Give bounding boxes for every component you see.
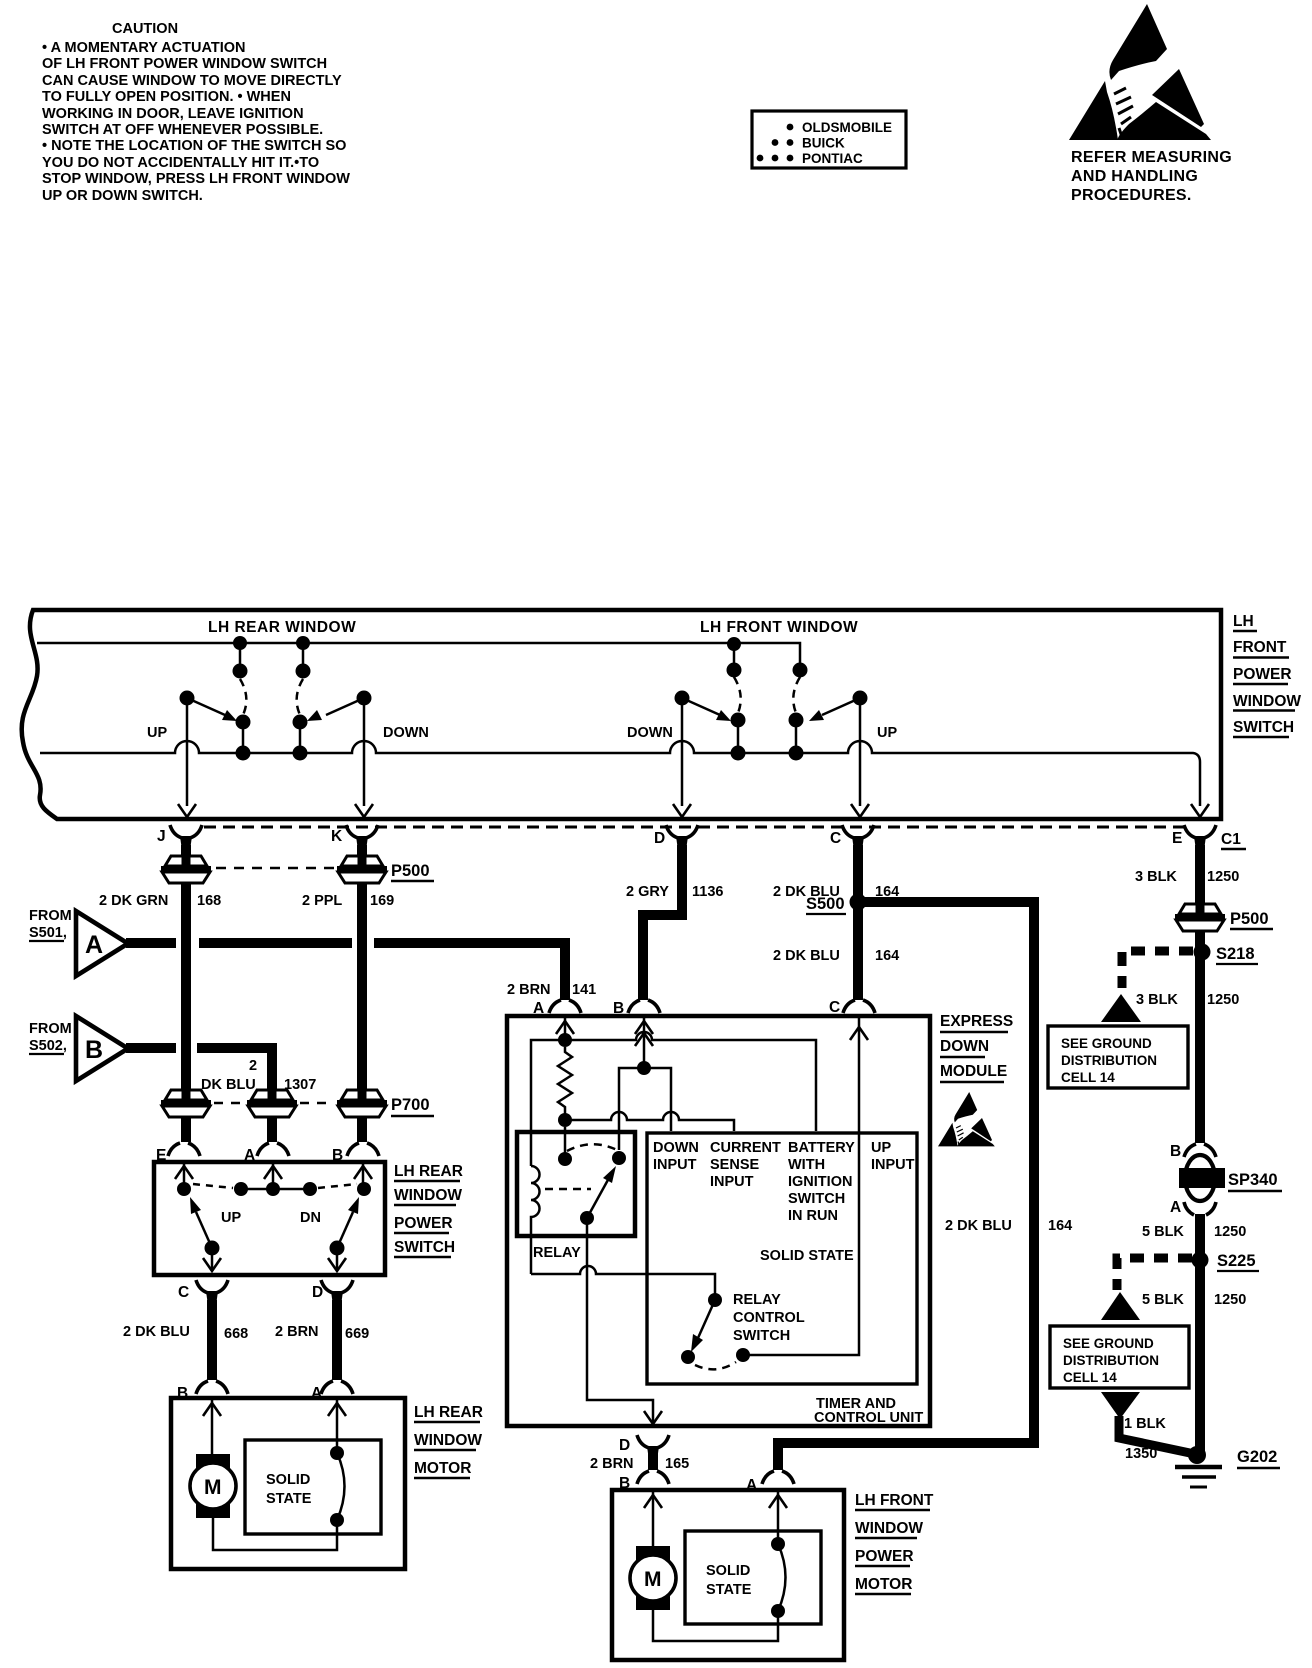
svg-text:SOLID STATE: SOLID STATE (760, 1248, 854, 1264)
module pin B connector (613, 1000, 660, 1017)
splice SP340 (1179, 1155, 1282, 1201)
splice SP340 pin A (1170, 1199, 1216, 1216)
wire circuit 168 (J to P700-E) (181, 884, 191, 1090)
LH rear switch dashed contact throws (240, 679, 246, 715)
svg-text:SWITCH: SWITCH (1233, 719, 1294, 736)
svg-text:C1: C1 (1221, 831, 1241, 848)
rear switch pin B connector (332, 1143, 379, 1164)
rear switch dashed throws (193, 1184, 233, 1188)
caution note text block (42, 21, 350, 204)
label RELAY CONTROL SWITCH (733, 1292, 805, 1344)
make legend box (Oldsmobile/Buick/Pontiac) (752, 111, 906, 168)
svg-text:LH FRONT WINDOW: LH FRONT WINDOW (700, 619, 858, 636)
rear motor pin B connector (177, 1381, 228, 1402)
relay arm output to module pin D (587, 1218, 653, 1423)
pin E connector (1172, 825, 1216, 847)
rear motor title (414, 1404, 483, 1478)
feed line (top bus inside switch) (37, 643, 800, 668)
label P500 (391, 862, 434, 881)
svg-text:STOP WINDOW, PRESS LH FRONT WI: STOP WINDOW, PRESS LH FRONT WINDOW (42, 171, 350, 187)
svg-text:UP OR DOWN SWITCH.: UP OR DOWN SWITCH. (42, 188, 203, 204)
svg-text:CONTROL: CONTROL (733, 1310, 805, 1326)
svg-text:OF LH FRONT POWER WINDOW SWITC: OF LH FRONT POWER WINDOW SWITCH (42, 56, 327, 72)
connector P500 (K leg) (337, 855, 387, 883)
wires P700 to rear switch pins (186, 1117, 362, 1142)
rear switch contact bus (177, 1182, 371, 1196)
svg-text:169: 169 (370, 893, 394, 909)
svg-text:MODULE: MODULE (940, 1063, 1007, 1080)
svg-text:SEE GROUND: SEE GROUND (1063, 1336, 1154, 1351)
relay dashed throw arc (567, 1144, 617, 1151)
rear switch D output arrow (328, 1248, 346, 1271)
front motor pin A connector (746, 1471, 794, 1494)
svg-text:IN RUN: IN RUN (788, 1208, 838, 1224)
svg-text:D: D (619, 1437, 630, 1454)
wire circuit 164 (C to module C) (853, 845, 863, 1000)
dashed wire S218 to ground distribution (1122, 951, 1193, 988)
svg-text:CAUTION: CAUTION (112, 21, 178, 37)
svg-text:IGNITION: IGNITION (788, 1174, 852, 1190)
rear switch E input arrow (175, 1164, 193, 1189)
P500 dashed tie line (216, 867, 334, 870)
wire circuit 668 (207, 1300, 217, 1380)
wire circuit 165 (648, 1450, 658, 1470)
svg-text:A: A (1170, 1199, 1181, 1216)
connector P700 (B leg) (337, 1089, 387, 1117)
svg-text:S501,: S501, (29, 925, 67, 941)
svg-text:TO FULLY OPEN POSITION. • WHEN: TO FULLY OPEN POSITION. • WHEN (42, 89, 291, 105)
wire circuit 169 (K to P700-B) (357, 884, 367, 1090)
svg-text:INPUT: INPUT (871, 1157, 915, 1173)
svg-text:2 DK BLU: 2 DK BLU (945, 1218, 1012, 1234)
svg-text:SOLID: SOLID (266, 1472, 310, 1488)
svg-text:668: 668 (224, 1326, 248, 1342)
LH rear window motor box (171, 1398, 405, 1569)
current sense input line (hops over two columns) (565, 1112, 734, 1131)
svg-text:MOTOR: MOTOR (414, 1460, 471, 1477)
svg-text:UP: UP (877, 725, 897, 741)
svg-text:LH FRONT: LH FRONT (855, 1492, 934, 1509)
svg-text:DISTRIBUTION: DISTRIBUTION (1061, 1053, 1157, 1068)
rear motor B input arrow (203, 1400, 221, 1454)
svg-text:YOU DO NOT ACCIDENTALLY HIT IT: YOU DO NOT ACCIDENTALLY HIT IT.•TO (42, 155, 319, 171)
label BATTERY WITH IGNITION SWITCH IN RUN (788, 1140, 855, 1224)
svg-text:2 PPL: 2 PPL (302, 893, 342, 909)
rear switch DN moving contact arm (330, 1197, 360, 1256)
wire circuit 669 (332, 1300, 342, 1380)
P700 dashed tie lines (214, 1102, 245, 1105)
svg-text:SEE GROUND: SEE GROUND (1061, 1036, 1152, 1051)
current sense resistor (558, 1047, 572, 1114)
svg-text:BATTERY: BATTERY (788, 1140, 855, 1156)
battery-with-ignition feed line (hop over B column) (565, 1032, 816, 1131)
rear motor internal switch (330, 1446, 345, 1534)
svg-text:P500: P500 (391, 862, 430, 880)
svg-text:SWITCH: SWITCH (733, 1328, 790, 1344)
relay fixed contact (B side) (612, 1151, 626, 1165)
module B input arrows (double) (635, 1018, 653, 1068)
label UP INPUT (871, 1140, 915, 1173)
wire SP340 to S225 (circuit 1250) (1195, 1214, 1205, 1455)
svg-text:168: 168 (197, 893, 221, 909)
svg-text:S225: S225 (1217, 1252, 1256, 1270)
relay box (517, 1132, 635, 1236)
rear switch A input arrow (264, 1164, 282, 1189)
svg-text:POWER: POWER (855, 1548, 914, 1565)
svg-text:FRONT: FRONT (1233, 639, 1287, 656)
off-page arrow to ground distribution (lower) (1101, 1292, 1140, 1320)
svg-text:B: B (1170, 1143, 1181, 1160)
label CURRENT SENSE INPUT (710, 1140, 781, 1190)
svg-text:• A MOMENTARY ACTUATION: • A MOMENTARY ACTUATION (42, 40, 246, 56)
svg-text:DOWN: DOWN (383, 725, 429, 741)
svg-text:M: M (204, 1476, 222, 1499)
ground G202 (1175, 1446, 1280, 1487)
LH front window power motor box (612, 1490, 844, 1660)
svg-text:CAN CAUSE WINDOW TO MOVE DIREC: CAN CAUSE WINDOW TO MOVE DIRECTLY (42, 73, 342, 89)
svg-text:B: B (613, 1000, 624, 1017)
svg-text:STATE: STATE (266, 1491, 312, 1507)
relay control switch (681, 1293, 750, 1369)
LH front switch DOWN moving contact (675, 691, 746, 761)
off-page arrow from ground distribution (1101, 1392, 1140, 1419)
svg-text:DOWN: DOWN (940, 1038, 989, 1055)
svg-text:SENSE: SENSE (710, 1157, 759, 1173)
ESD handling note text (1071, 149, 1232, 204)
svg-text:FROM: FROM (29, 1021, 72, 1037)
front motor A input arrow (769, 1492, 787, 1544)
svg-text:CELL 14: CELL 14 (1061, 1070, 1115, 1085)
svg-text:WINDOW: WINDOW (414, 1432, 482, 1449)
svg-text:S500: S500 (806, 895, 845, 913)
svg-text:MOTOR: MOTOR (855, 1576, 912, 1593)
output rail wire with crossover hops (40, 741, 1200, 806)
svg-text:B: B (85, 1036, 103, 1064)
svg-text:C: C (829, 999, 840, 1016)
relay coil feed branch (531, 1040, 565, 1166)
switch output drop wires to connector pins (187, 705, 860, 806)
motor M2 (front) (630, 1546, 676, 1610)
label C1 (1221, 831, 1246, 849)
LH rear window switch fixed contacts (233, 636, 311, 679)
svg-text:164: 164 (1048, 1218, 1072, 1234)
module pin D connector (619, 1435, 669, 1457)
svg-text:UP: UP (221, 1210, 241, 1226)
wire circuit 1250 (E to P500) (1195, 845, 1205, 905)
svg-text:2 BRN: 2 BRN (275, 1324, 319, 1340)
svg-text:EXPRESS: EXPRESS (940, 1013, 1013, 1030)
svg-text:DN: DN (300, 1210, 321, 1226)
svg-text:D: D (654, 830, 665, 847)
svg-text:WITH: WITH (788, 1157, 825, 1173)
front motor solid state box (685, 1531, 821, 1624)
front motor internal switch (771, 1537, 786, 1624)
LH front window switch fixed contacts (727, 637, 808, 678)
svg-text:CELL 14: CELL 14 (1063, 1370, 1117, 1385)
connector C1 dashed boundary line (204, 826, 1190, 829)
svg-text:DOWN: DOWN (653, 1140, 699, 1156)
svg-text:1136: 1136 (692, 884, 723, 900)
svg-text:BUICK: BUICK (802, 136, 845, 151)
express down module box (507, 1016, 930, 1426)
relay fixed contact (A side) (558, 1127, 572, 1166)
svg-text:DK BLU: DK BLU (201, 1077, 256, 1093)
svg-text:141: 141 (572, 982, 596, 998)
relay moving contact arm (580, 1166, 616, 1225)
connector P500 (E leg) (1175, 903, 1225, 931)
svg-text:2: 2 (249, 1058, 257, 1074)
svg-text:C: C (178, 1284, 189, 1301)
rear motor pin A connector (311, 1381, 353, 1402)
pin D connector (654, 825, 698, 847)
node B from S502 label (29, 1021, 72, 1054)
svg-text:2 DK BLU: 2 DK BLU (773, 948, 840, 964)
LH rear window power switch box (154, 1162, 385, 1275)
svg-text:LH REAR: LH REAR (394, 1163, 463, 1180)
splice SP340 pin B (1170, 1143, 1216, 1160)
svg-text:5 BLK: 5 BLK (1142, 1224, 1184, 1240)
node A junction (558, 1033, 572, 1047)
svg-text:INPUT: INPUT (710, 1174, 754, 1190)
wire from A to express down module (battery feed) (126, 938, 560, 948)
see ground distribution cell 14 note (lower) (1050, 1326, 1189, 1388)
rear motor solid state box (245, 1440, 381, 1534)
svg-text:5 BLK: 5 BLK (1142, 1292, 1184, 1308)
svg-text:DOWN: DOWN (627, 725, 673, 741)
LH front switch UP moving contact (789, 691, 868, 761)
rear switch UP moving contact arm (190, 1197, 220, 1256)
svg-text:S218: S218 (1216, 945, 1255, 963)
svg-text:PONTIAC: PONTIAC (802, 151, 863, 166)
exit arrows at switch box bottom (178, 804, 1209, 817)
svg-text:REFER MEASURING: REFER MEASURING (1071, 149, 1232, 166)
module pin C connector (829, 999, 875, 1016)
svg-text:K: K (331, 828, 343, 845)
svg-text:WINDOW: WINDOW (1233, 693, 1301, 710)
svg-text:J: J (157, 828, 166, 845)
svg-text:CURRENT: CURRENT (710, 1140, 781, 1156)
LH rear switch DN moving contact (293, 691, 372, 761)
wire circuit 1350 to G202 (1119, 1416, 1190, 1453)
svg-text:WORKING IN DOOR, LEAVE IGNITIO: WORKING IN DOOR, LEAVE IGNITION (42, 106, 304, 122)
splice S500 (806, 894, 867, 915)
pin J connector (157, 825, 202, 847)
timer and control unit box (647, 1133, 917, 1384)
svg-text:A: A (85, 931, 103, 959)
svg-text:669: 669 (345, 1326, 369, 1342)
svg-text:3 BLK: 3 BLK (1135, 869, 1177, 885)
svg-text:1 BLK: 1 BLK (1124, 1416, 1166, 1432)
front motor return wire (653, 1610, 778, 1641)
svg-text:S502,: S502, (29, 1038, 67, 1054)
wire K stub (357, 845, 367, 856)
LH rear switch UP moving contact (180, 691, 251, 761)
svg-text:FROM: FROM (29, 908, 72, 924)
svg-text:STATE: STATE (706, 1582, 752, 1598)
rear switch B input arrow (354, 1164, 372, 1189)
node A from S501 label (29, 908, 72, 941)
svg-text:• NOTE THE LOCATION OF THE SWI: • NOTE THE LOCATION OF THE SWITCH SO (42, 138, 346, 154)
rear motor return wire (213, 1518, 337, 1550)
svg-text:1250: 1250 (1207, 869, 1239, 885)
node B junction (637, 1061, 651, 1075)
svg-text:1250: 1250 (1214, 1292, 1246, 1308)
module title EXPRESS DOWN MODULE (940, 1013, 1013, 1082)
off-page triangle B (76, 1016, 128, 1081)
svg-text:G202: G202 (1237, 1448, 1277, 1466)
rear switch pin C connector (178, 1280, 228, 1302)
splice S225 (1192, 1252, 1260, 1272)
front motor pin B connector (619, 1471, 669, 1492)
svg-text:SOLID: SOLID (706, 1563, 750, 1579)
wire from S500 to LH front motor A (circuit 164) (783, 902, 1034, 1443)
svg-text:164: 164 (875, 948, 899, 964)
svg-text:D: D (312, 1284, 323, 1301)
pin C connector (830, 825, 874, 847)
relay coil return line (hop over arm wire) (531, 1266, 715, 1294)
rear switch pin A connector (244, 1143, 289, 1164)
label SOLID STATE (front) (706, 1563, 752, 1598)
svg-text:A: A (533, 1000, 544, 1017)
svg-text:2 GRY: 2 GRY (626, 884, 669, 900)
rear motor A input arrow (328, 1400, 346, 1453)
module A input arrow (556, 1018, 574, 1040)
svg-text:1350: 1350 (1125, 1446, 1157, 1462)
label P500 (right) (1230, 910, 1273, 929)
svg-text:SP340: SP340 (1228, 1171, 1278, 1189)
connector P500 (J leg) (161, 855, 211, 883)
label 2 / DK BLU / 1307 (201, 1058, 316, 1093)
LH front power window switch outer box with break wave (22, 610, 1221, 819)
connector P700 (E leg) (161, 1089, 211, 1117)
svg-text:WINDOW: WINDOW (855, 1520, 923, 1537)
svg-text:165: 165 (665, 1456, 689, 1472)
relay actuation dashed link (545, 1188, 591, 1191)
branch B to down input (644, 1068, 671, 1131)
front motor title (855, 1492, 934, 1594)
svg-text:2 DK BLU: 2 DK BLU (123, 1324, 190, 1340)
module pin A connector (533, 1000, 581, 1017)
svg-text:E: E (1172, 830, 1182, 847)
dashed wire S225 to ground distribution (1117, 1258, 1192, 1290)
svg-text:RELAY: RELAY (533, 1245, 581, 1261)
front motor B input arrow (644, 1492, 662, 1546)
ESD sensitivity symbol (small) (938, 1092, 995, 1146)
pin K connector (331, 825, 378, 847)
svg-text:WINDOW: WINDOW (394, 1187, 462, 1204)
svg-text:M: M (644, 1568, 662, 1591)
see ground distribution cell 14 note (upper) (1048, 1026, 1188, 1088)
svg-text:SWITCH AT OFF WHENEVER POSSIBL: SWITCH AT OFF WHENEVER POSSIBLE. (42, 122, 323, 138)
rear switch pin E connector (156, 1143, 200, 1164)
wire J stub (181, 845, 191, 856)
svg-text:1250: 1250 (1214, 1224, 1246, 1240)
svg-text:POWER: POWER (1233, 666, 1292, 683)
off-page triangle A (76, 911, 128, 976)
off-page arrow to ground distribution (upper) (1101, 994, 1141, 1022)
resistor bottom junction (558, 1113, 572, 1127)
svg-text:OLDSMOBILE: OLDSMOBILE (802, 120, 892, 135)
splice S218 (1194, 944, 1259, 965)
branch B to relay contact (619, 1068, 644, 1150)
svg-text:LH REAR: LH REAR (414, 1404, 483, 1421)
svg-text:SWITCH: SWITCH (394, 1239, 455, 1256)
svg-text:POWER: POWER (394, 1215, 453, 1232)
rear switch pin D connector (312, 1280, 353, 1302)
svg-text:2 DK GRN: 2 DK GRN (99, 893, 168, 909)
module C input arrow (743, 1018, 868, 1355)
connector P700 (A leg) (247, 1089, 297, 1117)
wire P500 to S218 (1195, 931, 1205, 1143)
svg-text:AND HANDLING: AND HANDLING (1071, 168, 1198, 185)
LH front switch dashed contact throws (734, 677, 741, 713)
svg-text:INPUT: INPUT (653, 1157, 697, 1173)
motor M1 (rear) (190, 1454, 236, 1518)
module D output arrow (644, 1411, 662, 1424)
svg-text:2 BRN: 2 BRN (590, 1456, 634, 1472)
svg-text:UP: UP (147, 725, 167, 741)
svg-text:CONTROL UNIT: CONTROL UNIT (814, 1410, 923, 1426)
label TIMER AND CONTROL UNIT (814, 1396, 923, 1426)
relay coil (531, 1166, 540, 1274)
label SOLID STATE (rear) (266, 1472, 312, 1507)
svg-text:P500: P500 (1230, 910, 1269, 928)
wire circuit 1307 (B to P700-A) (126, 1048, 272, 1090)
rear switch title (394, 1163, 463, 1257)
label DOWN INPUT (653, 1140, 699, 1173)
svg-text:LH: LH (1233, 613, 1254, 630)
ESD sensitivity warning symbol (large) (1069, 4, 1211, 140)
label P700 (391, 1096, 434, 1116)
svg-text:C: C (830, 830, 841, 847)
svg-text:P700: P700 (391, 1096, 430, 1114)
svg-text:DISTRIBUTION: DISTRIBUTION (1063, 1353, 1159, 1368)
svg-text:LH REAR WINDOW: LH REAR WINDOW (208, 619, 356, 636)
svg-text:PROCEDURES.: PROCEDURES. (1071, 187, 1192, 204)
svg-text:SWITCH: SWITCH (788, 1191, 845, 1207)
svg-text:RELAY: RELAY (733, 1292, 781, 1308)
wire circuit 1136 (D to module B) (643, 845, 682, 1000)
svg-text:3 BLK: 3 BLK (1136, 992, 1178, 1008)
svg-text:1250: 1250 (1207, 992, 1239, 1008)
switch box title: LH FRONT POWER WINDOW SWITCH (1233, 613, 1301, 737)
rear switch C output arrow (203, 1248, 221, 1271)
svg-text:UP: UP (871, 1140, 891, 1156)
svg-text:2 BRN: 2 BRN (507, 982, 551, 998)
